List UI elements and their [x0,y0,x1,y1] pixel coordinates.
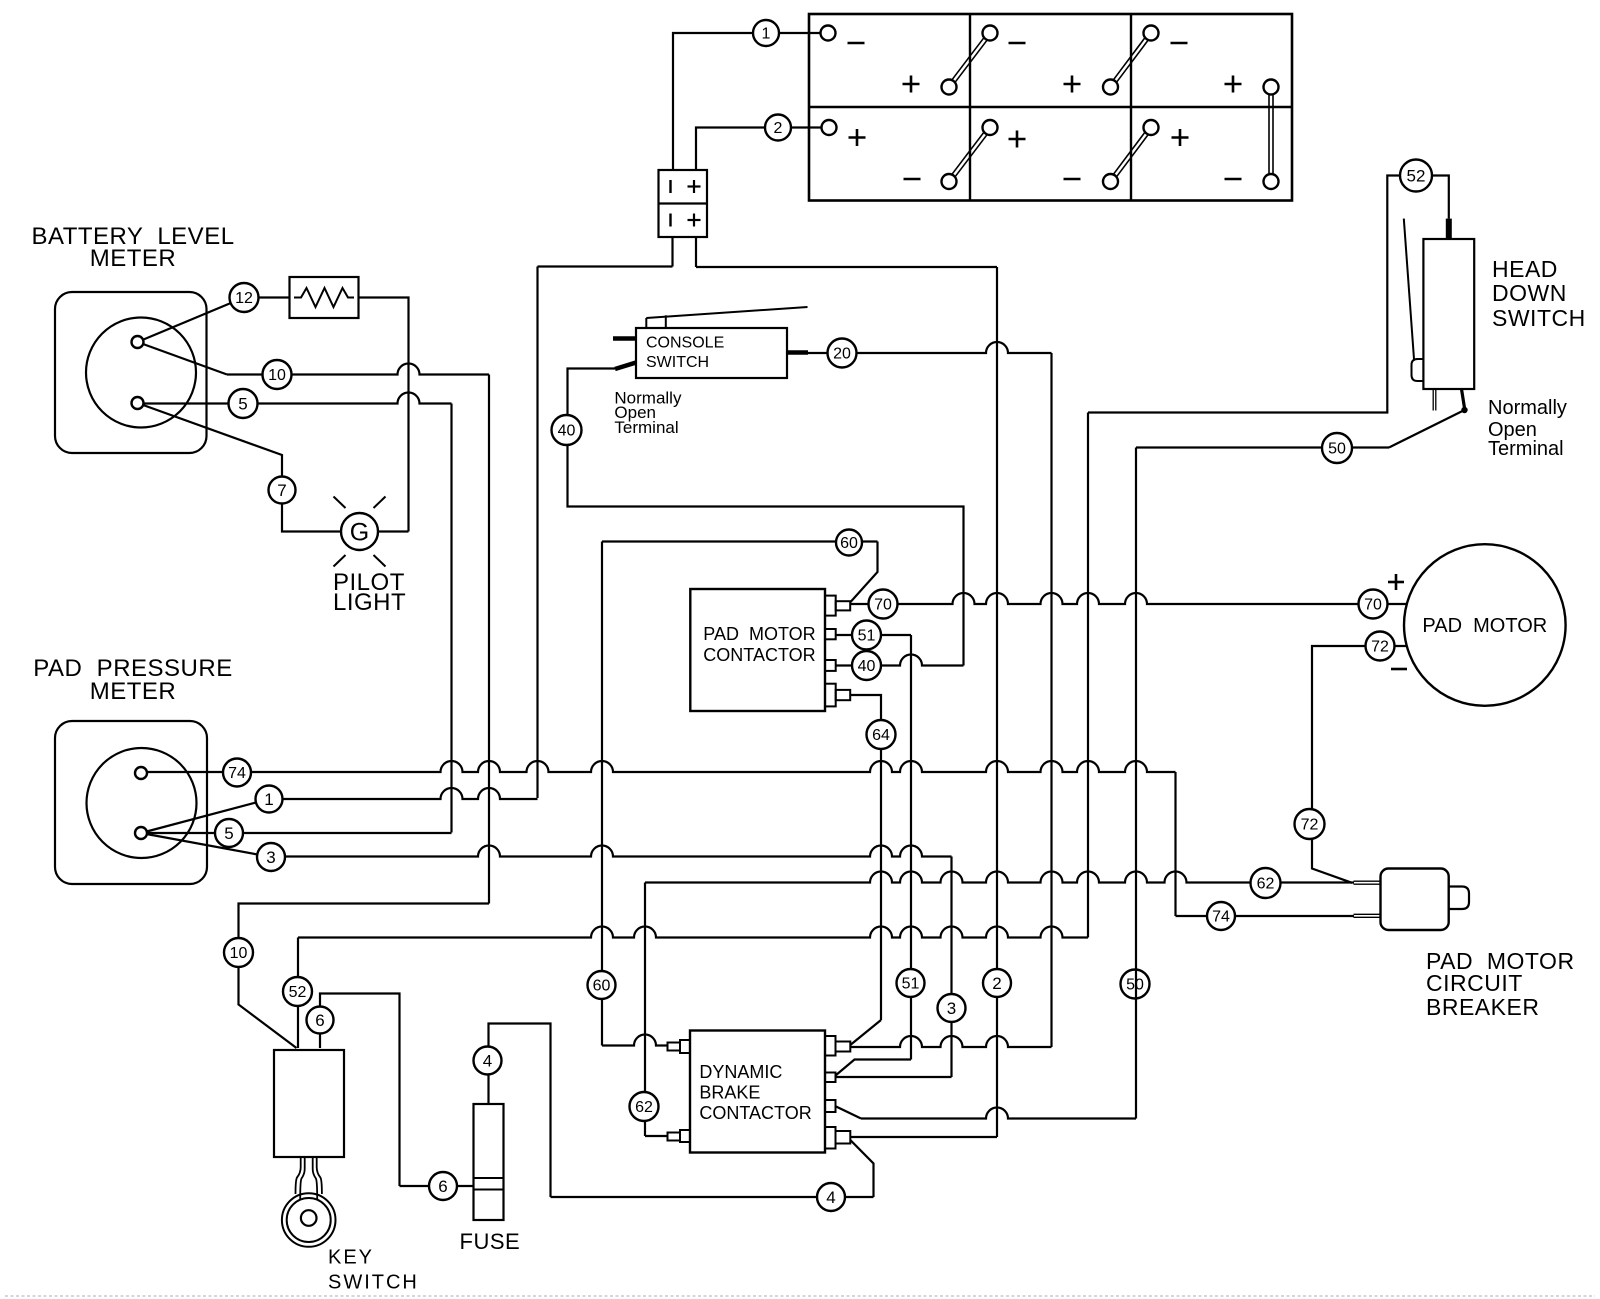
wire net 62 into K2 [645,1135,668,1137]
svg-text:6: 6 [315,1011,324,1030]
svg-text:LIGHT: LIGHT [333,589,406,616]
console switch NO label [614,389,682,437]
node 74 [223,759,251,787]
node 12 [230,283,259,312]
pilot light G [334,497,386,567]
contactor K2 right terminal 3 [825,1100,836,1112]
svg-text:5: 5 [224,824,233,843]
resistor R1 [290,277,359,318]
battery terminals [821,26,1279,190]
pad motor plus sign [1388,574,1404,590]
node 7 [269,477,296,504]
battery polarity signs row 2 [849,129,1242,179]
wire net 3 into K2 [836,1076,952,1078]
node 60 [836,530,862,556]
battery connector block [659,170,708,237]
svg-text:1: 1 [762,26,771,43]
wire net 52 to head down switch [1088,176,1449,413]
pad motor circuit breaker CB1 [1381,869,1470,931]
pad motor M3 [1404,544,1566,706]
svg-text:BRAKE: BRAKE [699,1083,760,1103]
svg-text:52: 52 [1407,166,1426,185]
node 50 [1322,433,1352,463]
wire net 64 diag to K2 [850,1020,881,1045]
svg-text:G: G [350,519,369,547]
contactor K2 right terminal 4 [825,1127,850,1149]
svg-text:CONSOLE: CONSOLE [646,335,724,352]
contactor K2 left terminal 2 [668,1130,691,1142]
node 2 [765,115,791,141]
svg-text:CIRCUIT: CIRCUIT [1426,970,1523,996]
svg-text:40: 40 [558,423,576,440]
page rule [5,1295,1595,1297]
contactor K2 right terminal 2 [825,1073,836,1083]
wire net 74 vertical [1174,772,1176,916]
console switch terminals [613,339,808,370]
battery jumper c2-c3 [947,32,991,88]
node 51 [852,621,881,650]
head down switch label [1492,256,1586,331]
svg-text:2: 2 [992,974,1001,993]
node 6b [429,1172,457,1200]
svg-text:1: 1 [264,790,273,809]
wire net 5 from meter M2 [141,832,452,834]
wire net 2 horizontal [696,266,997,268]
contactor K1 terminal 4 [825,684,850,707]
svg-text:5: 5 [238,394,247,413]
wire net 4 riser to contactor [850,1140,873,1197]
node 72b [1295,809,1325,839]
wire meter M1 top terminal to node 10 [138,342,228,375]
wire net 60 upper [602,540,878,542]
wire net 70 [850,593,1407,604]
svg-text:PAD MOTOR: PAD MOTOR [1422,615,1547,637]
wire net 20 vertical [1050,353,1052,1047]
wire net 60 into K2 [602,1035,668,1046]
svg-text:FUSE: FUSE [460,1229,521,1254]
node 50b [1121,970,1150,999]
wire net 51 from K1 [836,634,911,636]
svg-text:7: 7 [277,481,286,500]
pilot light label [333,569,406,616]
wire net 1 vertical [536,267,538,799]
node 74b [1207,902,1235,930]
pad motor contactor K1 [690,589,825,711]
wire net 52 bus [298,927,1088,938]
wire net 3 [271,846,952,857]
wire battery plus to node 2 [778,126,829,128]
svg-text:4: 4 [826,1188,835,1207]
wire connector right pin down [695,237,697,267]
svg-text:Normally: Normally [1488,397,1567,419]
wire net 40 from K1 [836,655,964,666]
node 60b [588,971,616,999]
svg-text:DYNAMIC: DYNAMIC [699,1062,782,1082]
wire pilot light to resistor riser [378,530,409,532]
pad motor circuit breaker label [1426,948,1575,1020]
key switch [274,1050,344,1157]
wire connector left pin down [671,237,673,267]
node 3b [938,994,966,1022]
svg-text:4: 4 [483,1052,492,1071]
wire node 7 to pilot light [282,504,341,532]
node 72 [1366,632,1395,661]
svg-text:3: 3 [947,999,956,1018]
head down switch S3 [1423,239,1474,389]
breaker top terminal [1354,881,1381,884]
svg-text:PAD MOTOR: PAD MOTOR [703,624,815,644]
svg-text:KEY: KEY [328,1247,374,1269]
wire net 72 from motor [1312,646,1407,883]
wire net 5 vertical [450,404,452,833]
svg-text:51: 51 [858,628,876,645]
wire net 10 lower [239,904,490,1049]
svg-text:72: 72 [1371,639,1389,656]
wire net 51 into K2 [836,1060,912,1076]
pad pressure meter M2 [55,721,207,884]
svg-text:20: 20 [833,346,851,363]
wire net 20 into K2 [850,1036,1051,1047]
wire meter M2 to node 3 [141,833,271,857]
svg-text:SWITCH: SWITCH [328,1272,419,1294]
svg-text:72: 72 [1301,817,1319,834]
svg-text:62: 62 [1257,876,1275,893]
svg-text:62: 62 [635,1099,653,1116]
wire net 40 left [568,369,964,666]
svg-text:10: 10 [268,367,286,384]
wire node 12 to resistor [259,296,290,298]
svg-text:BREAKER: BREAKER [1426,994,1539,1020]
wire net 3 vertical [950,857,952,1078]
contactor K1 terminal 2 [825,629,836,639]
node 20 [828,339,857,368]
svg-text:52: 52 [289,984,307,1001]
wire net 2 into K2 [850,1136,997,1138]
head down switch bottom pin [1433,389,1436,411]
head down switch NO label [1488,397,1567,460]
wire net 10 [227,364,489,375]
wire net 50 vertical [1135,448,1137,1119]
svg-text:70: 70 [1364,597,1382,614]
node 1 [753,20,779,46]
wire node 2 to connector [696,128,765,171]
wire battery minus to node 1 [766,32,828,34]
battery jumper c6-c12 [1269,87,1273,182]
console switch S1 [636,328,787,378]
wire net 20 [808,342,1052,353]
node 5 [229,389,258,418]
fuse label [460,1229,521,1254]
svg-text:74: 74 [228,765,246,782]
svg-text:60: 60 [840,535,858,552]
battery jumper c10-c11 [1109,126,1153,182]
console switch lever [646,307,807,328]
wire net 50 upper [1136,410,1465,448]
pad pressure meter label [33,655,232,705]
node 3 [257,843,285,871]
svg-text:51: 51 [902,976,920,993]
wire net 52 vertical [1087,413,1089,938]
battery jumper c4-c5 [1109,32,1153,88]
wire net 1 to riser [269,788,538,799]
svg-text:CONTACTOR: CONTACTOR [703,645,815,665]
key symbol [282,1157,336,1247]
wire net 4 lower [551,1196,874,1198]
node 2b [983,969,1011,997]
head down switch lever [1404,219,1423,381]
svg-text:3: 3 [266,848,275,867]
svg-text:SWITCH: SWITCH [646,354,709,371]
svg-text:10: 10 [230,945,248,962]
battery level meter label [31,223,234,272]
fuse F1 [474,1104,504,1220]
breaker bottom terminal [1354,914,1381,917]
svg-text:METER: METER [90,678,177,705]
node 40 [552,415,582,445]
svg-text:2: 2 [774,120,783,137]
battery polarity signs row 1 [848,43,1242,93]
svg-text:12: 12 [235,290,253,307]
svg-text:Terminal: Terminal [614,418,678,437]
wire net 64 [850,695,881,1020]
wire net 74 bus [141,761,1176,772]
node 4b [817,1183,845,1211]
svg-text:HEAD: HEAD [1492,256,1558,282]
svg-text:60: 60 [593,978,611,995]
node 62 [630,1092,659,1121]
svg-text:SWITCH: SWITCH [1492,305,1586,331]
wire resistor to pilot light [359,298,409,532]
wire meter M1 top terminal to node 12 [138,298,245,343]
meter M1 terminals [132,336,144,409]
wire net 60 vertical [601,542,603,1046]
node 5b [215,819,243,847]
node 64 [867,720,896,749]
key switch label [328,1247,419,1294]
wire net 50 into K2 [835,1106,1136,1119]
node 6 [307,1007,334,1034]
wire net 4 from fuse [489,1024,551,1198]
node 52 [283,977,312,1006]
dynamic brake contactor K2 [690,1031,825,1153]
wire net 10 vertical [488,375,490,904]
battery bank outline [809,14,1292,201]
pad motor minus sign [1391,668,1407,671]
wire net 6 lower [400,1185,474,1187]
wire net 5 from meter M1 [138,393,452,404]
svg-text:70: 70 [874,597,892,614]
svg-text:DOWN: DOWN [1492,280,1567,306]
contactor K1 terminal 3 [825,660,836,671]
node 1b [256,786,283,813]
contactor K2 left terminal 1 [668,1040,691,1053]
wire meter M1 bottom terminal to node 7 [138,403,283,490]
svg-text:Terminal: Terminal [1488,438,1564,460]
head down switch NO terminal [1461,389,1467,413]
node 70b [1359,590,1388,619]
wire net 6 upper [320,994,400,1187]
wire meter M2 to node 1 [141,799,269,833]
wire net 51 vertical [910,635,912,1060]
node 4 [474,1047,502,1075]
svg-text:40: 40 [858,658,876,675]
wire net 1 horizontal [538,265,673,267]
node 40b [852,651,881,680]
meter M2 terminals [135,767,147,839]
contactor K2 right terminal 1 [825,1036,850,1056]
svg-text:CONTACTOR: CONTACTOR [699,1103,811,1123]
node 62b [1251,868,1281,898]
node 52b [1400,160,1432,192]
node 70 [869,590,898,619]
wire node 1 to connector [673,33,753,170]
wire net 2 vertical [996,267,998,1137]
svg-text:6: 6 [438,1177,447,1196]
head down switch plunger [1446,219,1452,239]
wire net 62 vertical [644,883,646,1137]
battery jumper c8-c9 [947,126,991,182]
wire net 52 riser [297,938,299,1049]
node 10b [224,938,253,967]
svg-text:74: 74 [1212,909,1230,926]
wire net 62 horizontal [645,872,1354,883]
contactor K1 terminal 1 [825,596,850,616]
svg-text:50: 50 [1328,441,1346,458]
wire net 60 bend to K1 [851,542,878,603]
svg-text:METER: METER [90,245,177,272]
node 10 [263,360,292,389]
node 51b [897,969,925,997]
battery level meter M1 [55,292,207,453]
wire net 74 to breaker [1176,915,1355,917]
svg-text:64: 64 [872,727,890,744]
